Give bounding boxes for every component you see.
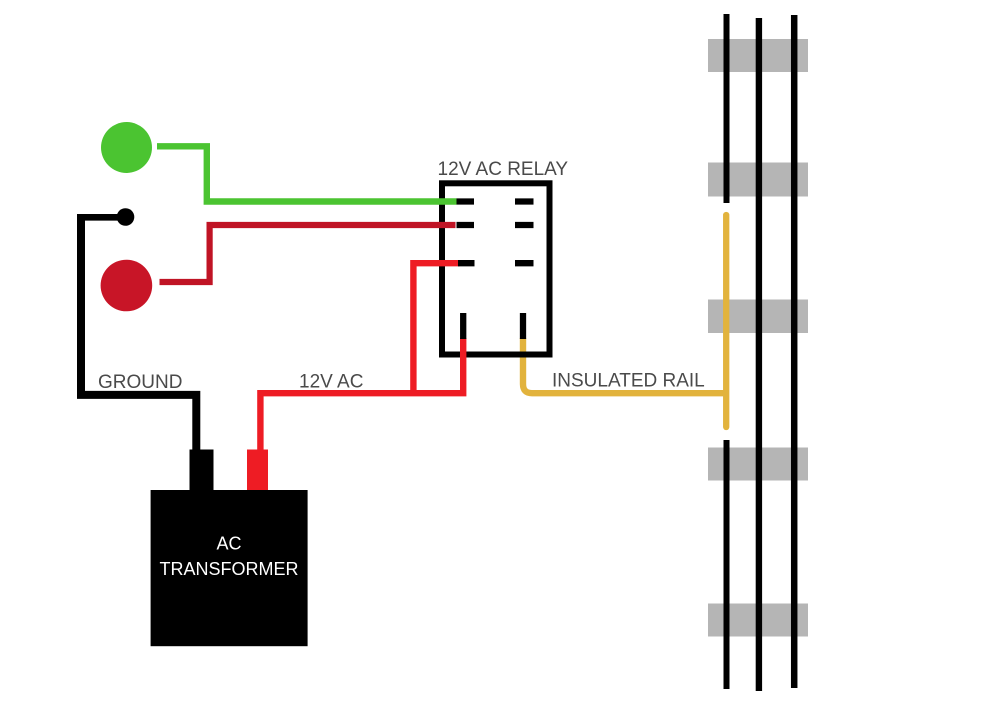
green signal lamp	[101, 122, 152, 173]
track tie 4	[708, 448, 808, 481]
ground wire	[81, 214, 196, 450]
svg-text:12V AC: 12V AC	[299, 372, 363, 393]
insulated rail section (yellow)	[723, 215, 729, 427]
relay pin row 1 right	[515, 198, 534, 204]
relay coil pin right	[520, 313, 526, 339]
svg-text:AC: AC	[216, 533, 241, 553]
relay U1 body	[442, 183, 550, 354]
wire dark red (red lamp to relay pin row 2)	[160, 225, 456, 282]
transformer black terminal	[190, 450, 214, 491]
right rail	[791, 15, 798, 688]
transformer T1 body	[151, 490, 308, 646]
relay pin row 1 left	[457, 198, 475, 204]
svg-text:INSULATED RAIL: INSULATED RAIL	[552, 371, 705, 392]
track tie 2	[708, 163, 808, 197]
relay pin row 2 right	[515, 222, 534, 228]
relay pin row 2 left	[457, 222, 475, 228]
wire 12V AC red branch to row 3	[413, 263, 459, 393]
red signal lamp	[101, 260, 153, 312]
relay coil pin left	[460, 313, 466, 339]
svg-text:12V AC RELAY: 12V AC RELAY	[438, 159, 569, 180]
ground wire stub to dot	[78, 214, 125, 221]
wire 12V AC red (transformer to relay coil and row 3)	[260, 338, 463, 450]
transformer red terminal	[247, 450, 268, 491]
svg-text:TRANSFORMER: TRANSFORMER	[160, 559, 299, 579]
wire green (lamp to relay pin row 1)	[157, 146, 457, 201]
track tie 3	[708, 300, 808, 334]
track tie 1	[708, 39, 808, 72]
left rail upper segment	[724, 14, 730, 203]
left rail lower segment	[724, 440, 730, 689]
track tie 5	[708, 604, 808, 637]
middle rail	[756, 18, 762, 691]
wire insulated rail yellow (relay to track)	[523, 338, 728, 393]
relay pin row 3 right	[515, 260, 534, 266]
svg-text:GROUND: GROUND	[98, 372, 182, 393]
relay pin row 3 left	[458, 260, 475, 266]
common terminal dot	[117, 208, 135, 226]
